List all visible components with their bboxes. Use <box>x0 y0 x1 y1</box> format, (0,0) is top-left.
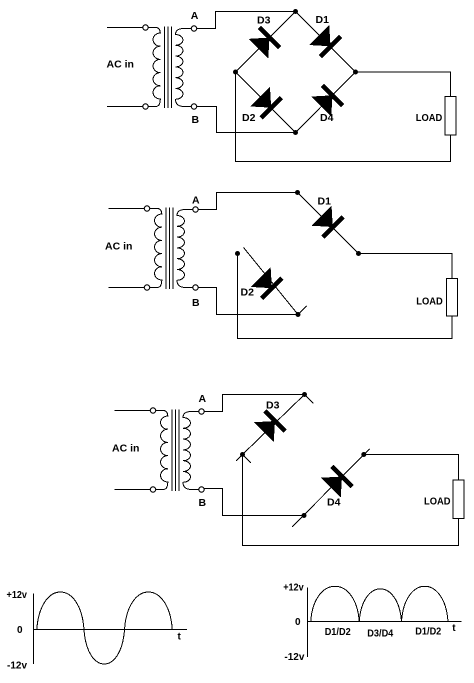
svg-text:-12v: -12v <box>284 652 304 663</box>
svg-text:B: B <box>192 114 200 126</box>
svg-text:LOAD: LOAD <box>424 496 451 508</box>
svg-text:D4: D4 <box>327 497 341 509</box>
svg-text:LOAD: LOAD <box>416 112 443 124</box>
svg-text:0: 0 <box>17 625 23 636</box>
svg-text:-12v: -12v <box>7 661 27 672</box>
svg-text:B: B <box>192 297 200 309</box>
svg-text:D1: D1 <box>318 195 332 207</box>
svg-text:D2: D2 <box>242 112 256 124</box>
svg-text:D1/D2: D1/D2 <box>325 627 351 638</box>
svg-text:A: A <box>191 10 199 22</box>
svg-text:+12v: +12v <box>7 590 28 601</box>
svg-text:AC in: AC in <box>112 443 139 455</box>
svg-text:A: A <box>192 195 200 207</box>
svg-text:AC in: AC in <box>105 241 132 253</box>
svg-text:D3/D4: D3/D4 <box>367 629 393 640</box>
svg-text:D3: D3 <box>266 399 280 411</box>
svg-text:D4: D4 <box>320 112 334 124</box>
svg-text:B: B <box>199 497 207 509</box>
svg-text:LOAD: LOAD <box>416 295 443 307</box>
svg-text:D2: D2 <box>241 286 255 298</box>
svg-text:AC in: AC in <box>107 59 134 71</box>
svg-text:D1: D1 <box>316 14 330 26</box>
svg-text:0: 0 <box>295 617 301 628</box>
svg-text:D3: D3 <box>257 15 271 27</box>
svg-text:D1/D2: D1/D2 <box>415 627 441 638</box>
svg-text:+12v: +12v <box>283 583 304 594</box>
svg-text:A: A <box>199 393 207 405</box>
